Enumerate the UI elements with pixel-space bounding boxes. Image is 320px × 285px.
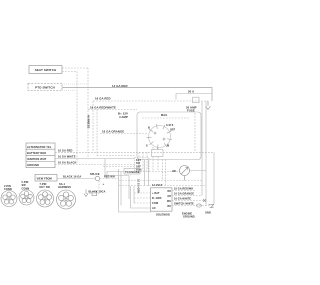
wire block down 1	[152, 157, 154, 172]
svg-text:WH: WH	[167, 201, 171, 203]
wire table row3 white	[55, 155, 135, 159]
svg-text:AC: AC	[152, 207, 156, 210]
ignition key switch SW1	[147, 124, 173, 149]
svg-text:TO ENGINE: TO ENGINE	[125, 171, 140, 174]
svg-text:16 GA RED/WH: 16 GA RED/WH	[174, 188, 193, 191]
wire battery dashed bus	[93, 100, 208, 102]
wire module inner drop	[194, 113, 196, 152]
svg-text:16 GA ORANGE: 16 GA ORANGE	[174, 193, 194, 196]
wire dotted above PTO	[62, 83, 88, 85]
svg-text:B: B	[148, 127, 150, 130]
svg-text:16 GA RED: 16 GA RED	[58, 148, 73, 152]
svg-text:BLACK 10GA: BLACK 10GA	[89, 191, 106, 194]
svg-text:12 VOLT: 12 VOLT	[152, 184, 163, 187]
svg-text:S: S	[146, 145, 148, 148]
svg-text:14 GA RED: 14 GA RED	[112, 84, 128, 88]
svg-text:CONN: CONN	[22, 187, 30, 190]
svg-text:4 AMP: 4 AMP	[119, 115, 128, 119]
PTO switch S2	[28, 84, 62, 91]
svg-text:+: +	[103, 182, 105, 186]
svg-text:MAG: MAG	[161, 113, 167, 117]
wire black 16 GA	[57, 175, 95, 179]
svg-text:BLACK 16 GA: BLACK 16 GA	[63, 175, 81, 179]
wire L from view box	[105, 159, 129, 176]
wire red/wh from node	[100, 175, 119, 178]
wire drops to key label	[139, 152, 147, 170]
svg-text:16 GA GRN: 16 GA GRN	[137, 179, 140, 193]
svg-text:SOLENOID: SOLENOID	[156, 213, 170, 216]
wire long vertical pair	[118, 169, 120, 212]
svg-text:ALTERNATOR YEL: ALTERNATOR YEL	[27, 145, 52, 149]
svg-text:IGNITION WHT: IGNITION WHT	[27, 157, 47, 161]
connector block under key switch	[152, 150, 164, 157]
wire vertical net V2	[87, 68, 89, 159]
wire key to block 1	[152, 147, 154, 150]
svg-text:16 GA RED: 16 GA RED	[95, 96, 111, 100]
svg-text:RD: RD	[167, 191, 171, 193]
wire row 166.5	[103, 166, 135, 168]
hour meter M1	[180, 166, 190, 181]
connector P1	[1, 191, 17, 207]
connector P3	[37, 190, 54, 207]
wire 16GA orange	[100, 130, 147, 134]
svg-text:16 GA BLACK: 16 GA BLACK	[58, 161, 76, 165]
wire dashed row 185	[119, 185, 206, 187]
key switch module box U1	[137, 112, 201, 160]
wire vertical net V1	[76, 72, 78, 165]
svg-text:SPLICE: SPLICE	[90, 173, 100, 176]
wire seat switch lower, dashed	[62, 71, 77, 73]
svg-text:VIEW FROM: VIEW FROM	[37, 177, 52, 180]
svg-text:KEY SW: KEY SW	[40, 186, 51, 189]
svg-text:PTO SWITCH: PTO SWITCH	[35, 86, 55, 90]
svg-text:GROUND: GROUND	[183, 216, 195, 219]
wire drop x129	[128, 176, 130, 200]
ground GND2	[84, 190, 88, 197]
wire bottom run	[119, 211, 152, 213]
svg-text:16 GA ORANGE: 16 GA ORANGE	[102, 130, 124, 134]
wire 16GA red with label	[95, 96, 111, 100]
svg-text:A M S: A M S	[166, 124, 174, 127]
svg-text:16 GA WHITE: 16 GA WHITE	[174, 198, 191, 201]
wire module top dashed	[142, 117, 190, 119]
wire 16GA red/white	[88, 106, 137, 110]
wire dashed row 180	[119, 180, 202, 182]
svg-text:CONN: CONN	[4, 188, 12, 191]
svg-text:OR: OR	[167, 196, 171, 198]
svg-text:20 A: 20 A	[188, 90, 194, 94]
label TO ENGINE box	[107, 169, 140, 179]
wiring table TB1	[26, 143, 55, 168]
wire relay pin 4	[172, 203, 210, 208]
svg-text:GND: GND	[205, 211, 211, 214]
connector P2	[19, 190, 34, 205]
wire main red 14GA	[62, 84, 212, 101]
wire relay pin 1	[172, 188, 196, 191]
svg-text:M: M	[167, 145, 169, 148]
connector P4	[57, 190, 76, 209]
svg-text:OFF: OFF	[170, 129, 176, 132]
wire net left drop 1	[92, 101, 94, 152]
svg-text:GROUND: GROUND	[27, 163, 39, 167]
svg-text:16 GA WHITE: 16 GA WHITE	[58, 155, 76, 159]
wire right edge drop	[213, 152, 215, 204]
wire right bus B	[205, 101, 207, 206]
wire module drops right	[163, 160, 166, 186]
wire table row2 red	[55, 148, 214, 152]
svg-text:RED WH: RED WH	[104, 175, 115, 178]
svg-text:HR: HR	[172, 170, 176, 173]
wire node drop	[98, 181, 100, 194]
wire relay feeds	[145, 160, 149, 187]
svg-text:16 GA RED/WHITE: 16 GA RED/WHITE	[90, 106, 116, 110]
view-from box	[35, 175, 57, 182]
svg-text:+ BAT: + BAT	[152, 192, 160, 195]
wire dotted below PTO	[62, 90, 76, 92]
seat switch S1	[29, 66, 62, 74]
fuse F1	[186, 97, 199, 112]
wire block down 2	[157, 157, 159, 172]
wire row 155.5	[97, 155, 135, 157]
svg-text:SEAT SWITCH: SEAT SWITCH	[35, 68, 57, 72]
inline connector on ground lead	[92, 192, 97, 196]
rectifier block U2	[151, 184, 173, 217]
svg-text:BATTERY RED: BATTERY RED	[27, 151, 46, 155]
wire relay pin 3	[172, 198, 206, 203]
key switch label box	[135, 158, 150, 172]
svg-text:COM: COM	[152, 202, 158, 205]
wire key to block 2	[157, 147, 159, 150]
wire black 10 GA	[86, 191, 106, 194]
svg-text:BK: BK	[167, 206, 171, 208]
fuse holder outline	[176, 94, 212, 100]
node J1	[90, 173, 100, 181]
wire table row4 black	[55, 161, 135, 165]
ground GND1	[206, 101, 211, 110]
svg-text:HARNESS: HARNESS	[87, 115, 91, 129]
svg-text:SWITCH WHITE: SWITCH WHITE	[174, 203, 194, 206]
wire right bus A	[201, 101, 203, 196]
svg-text:HARNESS: HARNESS	[58, 186, 71, 189]
wire meter to bus	[190, 170, 207, 172]
wire to meter	[140, 171, 180, 173]
svg-text:B- GRD: B- GRD	[152, 197, 162, 200]
ground GND3	[209, 204, 215, 208]
wire net left drop 2	[96, 110, 98, 156]
wire relay pin 2	[172, 193, 202, 196]
wire seat switch to node, dashed	[62, 67, 88, 69]
